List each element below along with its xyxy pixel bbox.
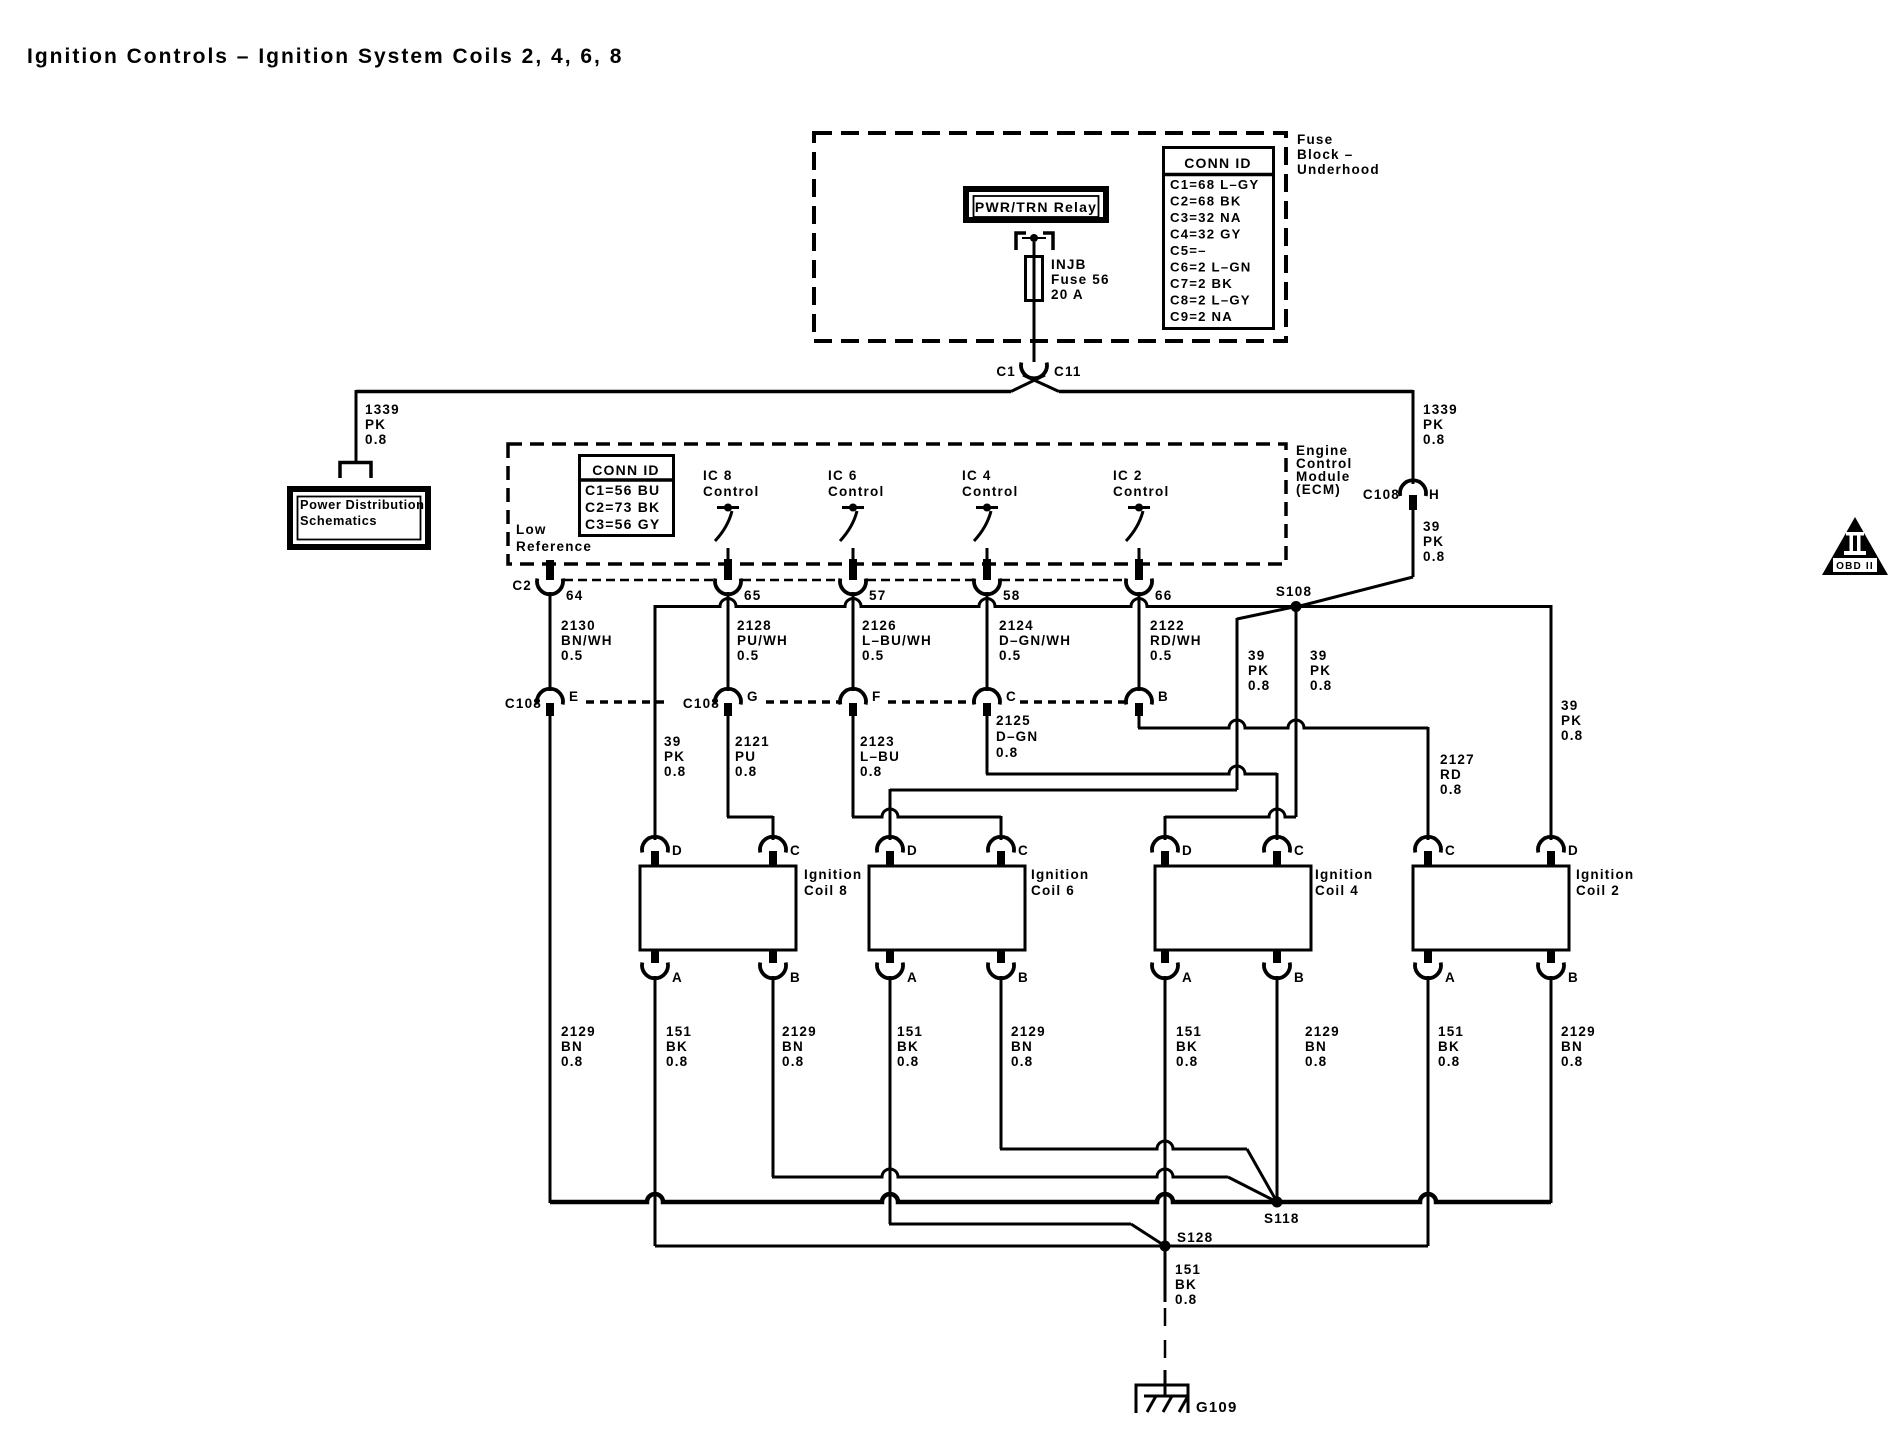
svg-text:PK: PK — [1423, 417, 1444, 432]
svg-text:C3=56 GY: C3=56 GY — [585, 516, 660, 532]
power distribution schematics box — [290, 489, 428, 547]
relay pin bracket — [1016, 233, 1053, 250]
svg-text:0.8: 0.8 — [735, 764, 757, 779]
svg-text:Block –: Block – — [1297, 147, 1353, 162]
wire S108 branch diagonal — [1237, 607, 1296, 791]
wire 2121 PU — [727, 716, 773, 840]
coil 8 pin C top-right — [760, 837, 801, 865]
svg-text:C2=68 BK: C2=68 BK — [1170, 194, 1242, 209]
svg-text:G109: G109 — [1196, 1399, 1238, 1416]
svg-text:0.5: 0.5 — [737, 648, 759, 663]
coil 8 pin A bottom-left — [642, 951, 683, 985]
driver switch IC 4 control — [962, 468, 1018, 541]
svg-text:0.5: 0.5 — [561, 648, 583, 663]
svg-text:PK: PK — [1423, 534, 1444, 549]
svg-text:IC 6: IC 6 — [828, 468, 858, 483]
svg-text:C1: C1 — [996, 364, 1016, 379]
svg-text:Ignition: Ignition — [804, 867, 862, 882]
svg-text:0.8: 0.8 — [1248, 678, 1270, 693]
wire coil2 B 2129 BN — [1550, 976, 1553, 1203]
wire coil6 A 151 BK — [889, 976, 1165, 1246]
wire 39 PK to coil8 D — [654, 605, 657, 840]
label 2122 RD/WH — [1150, 618, 1202, 663]
wire coil6 B 2129 BN — [1000, 976, 1277, 1202]
label 151 BK coil6 — [897, 1024, 923, 1069]
wire right 1339 PK drop — [1412, 390, 1415, 484]
svg-text:2129: 2129 — [1011, 1024, 1046, 1039]
svg-text:BN: BN — [561, 1039, 583, 1054]
svg-text:1339: 1339 — [1423, 402, 1458, 417]
label 2128 PU/WH — [737, 618, 788, 663]
connector C2 dashed line — [564, 579, 1125, 581]
connector C108 pin G — [683, 689, 759, 716]
power distribution bracket — [340, 463, 371, 479]
svg-text:0.8: 0.8 — [365, 432, 387, 447]
svg-text:C2=73 BK: C2=73 BK — [585, 499, 660, 515]
svg-text:PK: PK — [1248, 663, 1269, 678]
pin stub IC 6 — [852, 548, 855, 580]
svg-text:RD/WH: RD/WH — [1150, 633, 1202, 648]
label 2129 BN coil8 — [782, 1024, 817, 1069]
connector C2 pin 64 — [537, 579, 583, 604]
svg-text:PU/WH: PU/WH — [737, 633, 788, 648]
svg-text:0.5: 0.5 — [1150, 648, 1172, 663]
conn id table (ECM) — [578, 456, 675, 536]
wire left 1339 PK drop — [355, 390, 358, 462]
svg-text:0.8: 0.8 — [664, 764, 686, 779]
label C2 — [512, 578, 532, 593]
svg-text:0.8: 0.8 — [996, 745, 1018, 760]
svg-text:PK: PK — [664, 749, 685, 764]
label 39 PK splice left — [1248, 648, 1270, 693]
coil 4 pin D top-left — [1152, 837, 1193, 865]
svg-text:39: 39 — [1561, 698, 1578, 713]
svg-text:B: B — [1018, 970, 1029, 985]
svg-text:BK: BK — [1175, 1277, 1197, 1292]
svg-text:Coil 4: Coil 4 — [1315, 883, 1359, 898]
svg-text:Fuse: Fuse — [1297, 132, 1333, 147]
svg-text:C: C — [1018, 843, 1029, 858]
svg-text:L–BU: L–BU — [860, 749, 900, 764]
svg-text:C108: C108 — [1363, 487, 1400, 502]
connector C108 dashed line — [586, 700, 1125, 704]
svg-text:2123: 2123 — [860, 734, 895, 749]
svg-text:64: 64 — [566, 588, 583, 603]
coil 6 pin B bottom-right — [988, 951, 1029, 985]
label 2130 BN/WH — [561, 618, 613, 663]
svg-text:B: B — [1568, 970, 1579, 985]
svg-text:Schematics: Schematics — [300, 513, 377, 528]
svg-text:C1=68 L–GY: C1=68 L–GY — [1170, 177, 1259, 192]
label 151 BK coil4 — [1176, 1024, 1202, 1069]
svg-text:D–GN: D–GN — [996, 729, 1038, 744]
wire 39 PK below C108 H — [1412, 510, 1415, 577]
svg-text:C4=32 GY: C4=32 GY — [1170, 227, 1242, 242]
coil 6 pin C top-right — [988, 837, 1029, 865]
coil 8 pin D top-left — [642, 837, 683, 865]
svg-text:2126: 2126 — [862, 618, 897, 633]
svg-text:BN: BN — [1305, 1039, 1327, 1054]
svg-text:0.5: 0.5 — [999, 648, 1021, 663]
wire low reference 2129 down — [549, 716, 552, 1203]
label 2121 PU — [735, 734, 770, 779]
ignition coil 2 box — [1413, 866, 1634, 950]
pin stub low reference — [546, 560, 554, 580]
ignition coil 4 box — [1155, 866, 1373, 950]
svg-text:F: F — [872, 689, 881, 704]
svg-text:Low: Low — [516, 522, 547, 537]
svg-text:A: A — [1182, 970, 1193, 985]
label 151 BK coil8 — [666, 1024, 692, 1069]
connector C1/C11 — [996, 363, 1081, 380]
svg-text:C1=56 BU: C1=56 BU — [585, 482, 660, 498]
svg-text:PK: PK — [1310, 663, 1331, 678]
ignition coil 8 box — [640, 866, 862, 950]
svg-text:C3=32 NA: C3=32 NA — [1170, 210, 1242, 225]
svg-text:A: A — [907, 970, 918, 985]
fuse INJB Fuse 56 20 A — [1026, 256, 1043, 301]
svg-text:151: 151 — [666, 1024, 692, 1039]
svg-text:0.8: 0.8 — [1011, 1054, 1033, 1069]
svg-text:39: 39 — [664, 734, 681, 749]
svg-text:65: 65 — [744, 588, 761, 603]
svg-text:INJB: INJB — [1051, 257, 1087, 272]
svg-text:D: D — [907, 843, 918, 858]
connector C108 pin B — [1126, 689, 1169, 716]
svg-text:Coil 8: Coil 8 — [804, 883, 848, 898]
fuse block - underhood dashed box — [814, 133, 1286, 341]
wire 2127 RD — [1138, 716, 1428, 840]
svg-text:0.8: 0.8 — [1175, 1292, 1197, 1307]
ground G109 — [1136, 1385, 1238, 1416]
svg-text:D: D — [1568, 843, 1579, 858]
label 2127 RD — [1440, 752, 1475, 797]
wire 2130 BN/WH — [549, 592, 552, 691]
svg-text:0.8: 0.8 — [1176, 1054, 1198, 1069]
wire 2124 D-GN/WH — [986, 592, 989, 691]
wire 39 PK to coil2 D — [1550, 605, 1553, 840]
label 39 PK splice right — [1310, 648, 1332, 693]
coil 2 pin A bottom-left — [1415, 951, 1456, 985]
label 2124 D-GN/WH — [999, 618, 1071, 663]
svg-text:C: C — [790, 843, 801, 858]
svg-text:B: B — [790, 970, 801, 985]
wire 2126 L-BU/WH — [852, 592, 855, 691]
svg-text:C: C — [1445, 843, 1456, 858]
svg-text:BK: BK — [1438, 1039, 1460, 1054]
svg-text:C6=2 L–GN: C6=2 L–GN — [1170, 260, 1252, 275]
svg-text:BK: BK — [666, 1039, 688, 1054]
svg-text:0.8: 0.8 — [782, 1054, 804, 1069]
svg-text:151: 151 — [1176, 1024, 1202, 1039]
svg-text:2121: 2121 — [735, 734, 770, 749]
svg-text:0.8: 0.8 — [1423, 432, 1445, 447]
connector C108 pin F — [840, 689, 881, 716]
svg-text:Control: Control — [703, 484, 759, 499]
svg-text:58: 58 — [1003, 588, 1020, 603]
svg-text:0.8: 0.8 — [1561, 728, 1583, 743]
label 2129 BN coil2 — [1561, 1024, 1596, 1069]
svg-text:B: B — [1294, 970, 1305, 985]
svg-text:Coil 2: Coil 2 — [1576, 883, 1620, 898]
svg-text:BN/WH: BN/WH — [561, 633, 613, 648]
svg-text:2122: 2122 — [1150, 618, 1185, 633]
wire 151 BK to ground — [1164, 1246, 1167, 1396]
wire top bus 1339 PK — [356, 390, 1413, 394]
svg-text:D: D — [1182, 843, 1193, 858]
svg-text:C5=–: C5=– — [1170, 243, 1207, 258]
low reference label — [516, 522, 592, 554]
svg-text:CONN ID: CONN ID — [592, 462, 660, 478]
wire S108 branch down — [1295, 607, 1298, 818]
svg-text:2129: 2129 — [1305, 1024, 1340, 1039]
connector C2 pin 57 — [840, 579, 886, 604]
label 1339 PK right — [1423, 402, 1458, 447]
wire 2123 L-BU — [852, 716, 1001, 840]
svg-text:D: D — [672, 843, 683, 858]
svg-text:(ECM): (ECM) — [1296, 482, 1341, 497]
svg-text:S118: S118 — [1264, 1211, 1300, 1226]
svg-text:PWR/TRN Relay: PWR/TRN Relay — [975, 199, 1097, 215]
label 151 BK ground — [1175, 1262, 1201, 1307]
svg-text:IC 4: IC 4 — [962, 468, 992, 483]
svg-text:20 A: 20 A — [1051, 287, 1084, 302]
svg-text:0.8: 0.8 — [860, 764, 882, 779]
wire fuse to C1/C11 — [1033, 301, 1036, 362]
label 2129 BN coil4 — [1305, 1024, 1340, 1069]
coil 6 pin D top-left — [877, 837, 918, 865]
svg-text:0.8: 0.8 — [1310, 678, 1332, 693]
coil 4 pin C top-right — [1264, 837, 1305, 865]
ignition coil 6 box — [869, 866, 1089, 950]
svg-text:2129: 2129 — [782, 1024, 817, 1039]
svg-text:Control: Control — [962, 484, 1018, 499]
svg-text:BN: BN — [782, 1039, 804, 1054]
svg-text:Ignition Controls – Ignition S: Ignition Controls – Ignition System Coil… — [27, 45, 623, 68]
svg-text:IC 8: IC 8 — [703, 468, 733, 483]
label 2123 L-BU — [860, 734, 900, 779]
svg-text:0.8: 0.8 — [666, 1054, 688, 1069]
coil 4 pin A bottom-left — [1152, 951, 1193, 985]
svg-text:C: C — [1006, 689, 1017, 704]
label 39 PK coil2 — [1561, 698, 1583, 743]
svg-text:Coil 6: Coil 6 — [1031, 883, 1075, 898]
svg-text:S108: S108 — [1276, 584, 1312, 599]
svg-text:CONN ID: CONN ID — [1184, 155, 1252, 171]
fuse label — [1051, 257, 1110, 302]
connector C2 pin 58 — [974, 579, 1020, 604]
svg-text:Control: Control — [828, 484, 884, 499]
svg-text:A: A — [672, 970, 683, 985]
connector C108 pin H — [1363, 480, 1440, 510]
coil 6 pin A bottom-left — [877, 951, 918, 985]
svg-text:C: C — [1294, 843, 1305, 858]
svg-text:BK: BK — [1176, 1039, 1198, 1054]
svg-text:Underhood: Underhood — [1297, 162, 1380, 177]
svg-text:Ignition: Ignition — [1576, 867, 1634, 882]
OBD II symbol — [1822, 517, 1888, 575]
svg-text:BN: BN — [1011, 1039, 1033, 1054]
coil 8 pin B bottom-right — [760, 951, 801, 985]
svg-text:2128: 2128 — [737, 618, 772, 633]
wire 151 BK bus — [655, 1245, 1428, 1248]
svg-text:2129: 2129 — [1561, 1024, 1596, 1039]
svg-text:0.8: 0.8 — [1438, 1054, 1460, 1069]
svg-text:BK: BK — [897, 1039, 919, 1054]
svg-text:Control: Control — [1113, 484, 1169, 499]
connector C2 pin 65 — [715, 579, 761, 604]
splice S108 — [1276, 584, 1312, 612]
driver switch IC 8 control — [703, 468, 759, 541]
svg-text:0.5: 0.5 — [862, 648, 884, 663]
svg-text:D–GN/WH: D–GN/WH — [999, 633, 1071, 648]
wire diagonal to S108 — [1296, 577, 1413, 607]
svg-text:E: E — [569, 689, 579, 704]
svg-text:66: 66 — [1155, 588, 1172, 603]
diagram title — [27, 45, 623, 68]
svg-text:C9=2 NA: C9=2 NA — [1170, 309, 1233, 324]
svg-text:151: 151 — [1175, 1262, 1201, 1277]
splice S118 — [1264, 1197, 1300, 1227]
wire coil4 D feed — [1165, 809, 1296, 840]
svg-text:Ignition: Ignition — [1031, 867, 1089, 882]
ECM label — [1296, 443, 1352, 497]
svg-text:RD: RD — [1440, 767, 1462, 782]
wire coil2 A 151 BK — [1427, 976, 1430, 1246]
svg-text:1339: 1339 — [365, 402, 400, 417]
label 151 BK coil2 — [1438, 1024, 1464, 1069]
svg-text:C11: C11 — [1054, 364, 1082, 379]
relay K PWR/TRN Relay box — [966, 189, 1106, 220]
svg-text:A: A — [1445, 970, 1456, 985]
wire coil8 A 151 BK — [654, 976, 657, 1246]
wire relay to fuse — [1033, 242, 1036, 256]
fuse block label — [1297, 132, 1380, 177]
wire coil8 B 2129 BN — [772, 976, 1277, 1202]
wire coil4 B 2129 BN — [1276, 976, 1279, 1202]
svg-text:PU: PU — [735, 749, 756, 764]
wire coil6 D feed — [890, 789, 1237, 840]
svg-text:2124: 2124 — [999, 618, 1034, 633]
wire coil4 A 151 BK — [1164, 976, 1167, 1246]
svg-text:2125: 2125 — [996, 713, 1031, 728]
svg-text:C8=2 L–GY: C8=2 L–GY — [1170, 293, 1251, 308]
label 2126 L-BU/WH — [862, 618, 932, 663]
svg-text:39: 39 — [1248, 648, 1265, 663]
svg-text:IC 2: IC 2 — [1113, 468, 1143, 483]
svg-text:S128: S128 — [1177, 1230, 1213, 1245]
svg-text:151: 151 — [897, 1024, 923, 1039]
svg-text:Power Distribution: Power Distribution — [300, 497, 425, 512]
wire 39 PK label coil8 feed — [664, 734, 686, 779]
svg-text:Ignition: Ignition — [1315, 867, 1373, 882]
label 2129 BN coil6 — [1011, 1024, 1046, 1069]
engine control module dashed box — [508, 444, 1286, 564]
pin stub IC 8 — [727, 548, 730, 580]
svg-text:C2: C2 — [512, 578, 532, 593]
svg-text:B: B — [1158, 689, 1169, 704]
svg-text:2130: 2130 — [561, 618, 596, 633]
driver switch IC 2 control — [1113, 468, 1169, 541]
connector C2 pin 66 — [1126, 579, 1172, 604]
driver switch IC 6 control — [828, 468, 884, 541]
svg-text:0.8: 0.8 — [1305, 1054, 1327, 1069]
connector C108 pin E — [505, 689, 579, 716]
wire 39 PK bus — [655, 599, 1551, 607]
wire 2128 PU/WH — [727, 592, 730, 691]
coil 2 pin B bottom-right — [1538, 951, 1579, 985]
svg-text:39: 39 — [1423, 519, 1440, 534]
wire 2122 RD/WH — [1138, 592, 1141, 691]
svg-text:H: H — [1429, 487, 1440, 502]
pin stub IC 4 — [986, 548, 989, 580]
wire 2129 BN bus — [550, 1194, 1551, 1202]
svg-text:0.8: 0.8 — [1440, 782, 1462, 797]
svg-text:PK: PK — [365, 417, 386, 432]
svg-text:L–BU/WH: L–BU/WH — [862, 633, 932, 648]
coil 2 pin C top-left — [1415, 837, 1456, 865]
svg-text:OBD II: OBD II — [1836, 561, 1874, 572]
svg-text:2129: 2129 — [561, 1024, 596, 1039]
conn id table (fuse block) — [1162, 148, 1275, 329]
svg-text:0.8: 0.8 — [1423, 549, 1445, 564]
pin stub IC 2 — [1138, 548, 1141, 580]
coil 2 pin D top-right — [1538, 837, 1579, 865]
svg-text:151: 151 — [1438, 1024, 1464, 1039]
label 2129 BN low ref — [561, 1024, 596, 1069]
svg-text:Reference: Reference — [516, 539, 592, 554]
svg-text:C7=2 BK: C7=2 BK — [1170, 276, 1233, 291]
svg-text:Fuse 56: Fuse 56 — [1051, 272, 1110, 287]
svg-text:2127: 2127 — [1440, 752, 1475, 767]
svg-text:PK: PK — [1561, 713, 1582, 728]
svg-text:BN: BN — [1561, 1039, 1583, 1054]
wire 2125 D-GN — [986, 716, 1277, 840]
label 2125 D-GN — [996, 713, 1038, 760]
connector C108 pin C — [974, 689, 1017, 716]
label 39 PK right — [1423, 519, 1445, 564]
svg-text:57: 57 — [869, 588, 886, 603]
svg-text:0.8: 0.8 — [1561, 1054, 1583, 1069]
svg-text:0.8: 0.8 — [897, 1054, 919, 1069]
svg-text:39: 39 — [1310, 648, 1327, 663]
splice S128 — [1160, 1230, 1214, 1252]
label 1339 PK left — [365, 402, 400, 447]
wire split X below C1/C11 — [1011, 375, 1059, 392]
coil 4 pin B bottom-right — [1264, 951, 1305, 985]
svg-text:0.8: 0.8 — [561, 1054, 583, 1069]
svg-text:G: G — [747, 689, 759, 704]
